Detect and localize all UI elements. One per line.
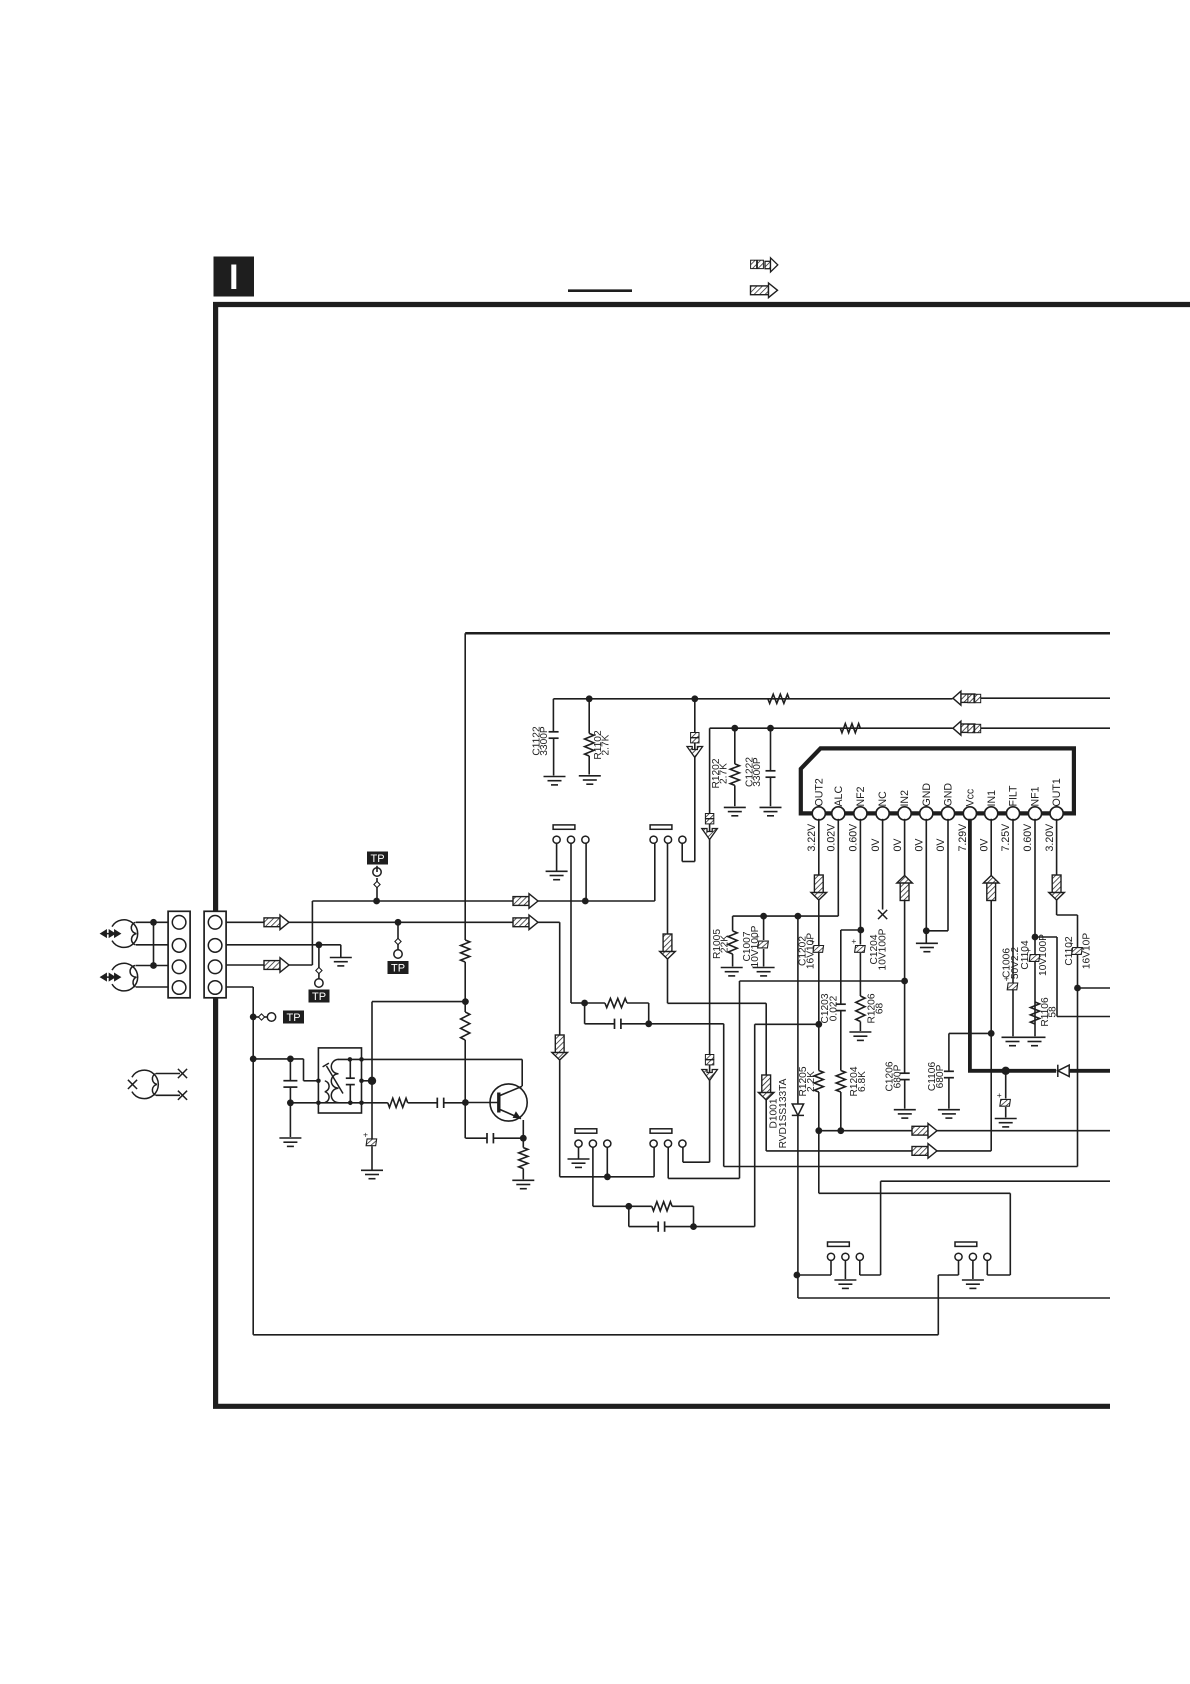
ground H5 [834,1280,856,1288]
net label squares on x709 lower [705,1055,713,1065]
wire y988 to right [1078,987,1111,989]
resistor R1102 [588,699,590,734]
wire RC2 right down [693,1206,695,1226]
wire x739 up to y981 [739,981,741,1178]
down arrow x766 (to D1001 label) [758,1075,774,1100]
wire x372 up and right to x465 [371,1002,373,1081]
capacitor C1206 [900,1073,910,1079]
svg-text:C1102: C1102 [1064,936,1075,966]
svg-text:3.20V: 3.20V [1044,823,1056,852]
wire H5 pin3 right-up [859,1261,861,1276]
capacitor C1203 [836,1004,846,1010]
resistor base R [388,1098,408,1107]
svg-text:2.2K: 2.2K [806,1071,817,1092]
wire J2 sleeve [136,986,168,988]
resistor R on net Y1 [768,694,789,703]
wire x1077 down [1077,915,1079,1167]
capacitor base C [437,1098,443,1108]
IC pin IN1 [985,807,998,820]
wire R1205 to y1130 [818,1092,820,1193]
resistor R1005 [732,916,734,931]
wire emitter [522,1120,524,1148]
node junction R1102 top [586,695,593,702]
capacitor RC1 [585,1023,615,1025]
node TP3 junction [316,941,323,948]
test point TP3 [318,945,320,979]
border frame [216,305,1190,1407]
wire RC1 right down [648,1003,650,1024]
node junction net Y1 to header [691,695,698,702]
wire GND pin 1 down [925,819,927,944]
ground osc tap [361,1170,383,1178]
ground emitter [512,1180,534,1188]
wire osc ground stub [289,1103,291,1137]
resistor Ra on x465 [461,940,470,962]
ground osc [279,1138,301,1146]
wire y1166 across [724,1166,1078,1168]
wire osc elbow to T1 pin [303,1059,305,1081]
svg-text:+: + [363,1129,368,1139]
wire y1181 to right [881,1180,1110,1182]
ground R1202 [724,807,746,815]
svg-text:0.02V: 0.02V [826,823,838,852]
node D1001 net top [795,913,802,920]
resistor R on net Y2 [840,724,860,733]
test point TP1 [376,878,378,901]
IC pin NC [876,807,889,820]
down arrowhead on x694 [687,747,703,758]
svg-text:OUT2: OUT2 [813,778,825,806]
transformer pins [316,1079,321,1084]
capacitor C1122 [552,699,554,732]
svg-text:TP: TP [312,991,326,1003]
wire net B up to header circle1 [654,844,656,902]
node junction x465-y1001 [462,998,469,1005]
resistor R1206 [856,996,865,1022]
node jack link top [150,919,157,926]
wire R to cap [408,1102,437,1104]
node NF1 y937 [1032,934,1039,941]
net label squares Y2 [968,724,981,732]
svg-text:10V100P: 10V100P [878,928,889,970]
wire GND pin 2 down [947,819,949,931]
wire NF2 stub to C1203 [841,929,861,931]
left arrow into net Y1 [953,691,975,705]
transformer T1 tuning arrow [323,1063,343,1093]
wire x372 down to bypass cap [371,1081,373,1139]
node T1 tap [368,1077,376,1085]
wire J3 top [156,1073,180,1075]
wire H4 pin2 net [667,1147,669,1178]
wire to ground osc tap [371,1146,373,1169]
x mark J3 left [128,1080,137,1089]
diode D Vcc [1058,1065,1069,1077]
IC pin OUT1 [1050,807,1063,820]
capacitor C1006 [1004,973,1018,989]
net label squares Y1 [968,694,981,702]
wire base node to transistor [465,1102,498,1104]
wire NF2 pin down [859,819,861,945]
svg-text:IN2: IN2 [899,790,911,807]
wire pin2 net y944 [226,944,341,946]
wire J1 tip [136,921,168,923]
svg-text:0V: 0V [978,838,990,852]
ground R1206 [849,1032,871,1040]
svg-text:6.8K: 6.8K [857,1071,868,1092]
node junction C1222 top [767,725,774,732]
node junction R1202 top [731,725,738,732]
capacitor C1202 [810,936,824,952]
wire H6 pin2 ground [972,1261,974,1280]
wire x1010 down to row3 header [1009,1193,1011,1275]
arrow y1151 [912,1144,937,1159]
down arrow on H2 pin2 wire [660,934,676,959]
down arrow on net A [552,1035,568,1060]
header H6 (row3 right) [955,1242,977,1246]
ground R1005 [721,968,743,976]
up arrow IN2 [897,876,913,901]
resistor R1202 [734,728,736,764]
wire net Y2 corner down x709 [709,728,711,1162]
IC pin GND [941,807,954,820]
wire IN1 bottom corner [990,1150,992,1152]
ground H1 pin1 [546,871,568,879]
node C1007 top [760,913,767,920]
wire H5 pin2 ground [844,1261,846,1280]
wire pin2 ground stub [340,945,342,958]
wire y1024 to OUT2 node [755,1023,819,1025]
wire ALC pin down [837,819,839,916]
wire T1 secondary out [362,1102,388,1104]
node RC2 left top [625,1203,632,1210]
svg-text:7.25V: 7.25V [1000,823,1012,852]
svg-text:TP: TP [286,1012,300,1024]
svg-text:3300P: 3300P [752,757,763,787]
IC pin FILT [1006,807,1019,820]
node RC1 right bottom [645,1020,652,1027]
svg-text:3300P: 3300P [539,726,550,756]
wire FILT pin down [1012,819,1014,1037]
wire x766 down [765,1003,767,1151]
wire IN1 pin down [990,819,992,1151]
wire OUT1 corner right [1057,914,1078,916]
svg-text:0V: 0V [914,838,926,852]
node TP2 junction [395,919,402,926]
ground pin2 net [330,958,352,966]
IC pin NF1 [1028,807,1041,820]
svg-text:NC: NC [877,791,889,807]
node GND junction [923,927,930,934]
wire x465 to base node [464,1040,466,1103]
svg-text:0V: 0V [935,838,947,852]
wire y1016 to right [1057,1016,1110,1018]
jack J1 (top phono) [112,920,138,948]
node IN2 y981 [901,978,908,985]
svg-text:7.29V: 7.29V [957,823,969,852]
node OUT2 y1024 [815,1021,822,1028]
svg-text:0V: 0V [892,838,904,852]
svg-text:ALC: ALC [833,786,845,807]
arrow y1130 [912,1123,937,1138]
arrow on net A left [264,915,289,930]
test point TP2 [397,922,399,950]
resistor RC2 [652,1202,672,1211]
svg-text:680P: 680P [935,1064,946,1088]
wire Vcc diode to right [1069,1069,1110,1073]
IC pin NF2 [854,807,867,820]
wire H2 pin2 down with arrow [667,843,669,1003]
ground Vcc cap [995,1119,1017,1127]
down arrowhead on x709 upper [702,829,718,840]
svg-text:68: 68 [875,1003,886,1015]
wire J3 bottom [156,1094,180,1096]
node osc cap bottom [287,1099,294,1106]
wire H1 pin3 down to net B [585,843,587,901]
ground IC GND pins [916,943,938,951]
wire OUT1 pin down [1056,819,1058,915]
capacitor Vcc electrolytic [1005,1071,1007,1099]
wire H3 pin1 ground stub [578,1147,580,1158]
ground C1206 [894,1110,916,1118]
node transistor base junction [462,1099,469,1106]
IC pin OUT2 [812,807,825,820]
wire net Y2 to right [981,727,1111,729]
ground C1122 [544,777,566,785]
wire net Y1 horizontal y699 [553,698,952,700]
x mark J3 top [178,1069,187,1078]
node C1102 bottom [1074,985,1081,992]
ground R1106 [1024,1037,1046,1045]
node junction circle3 row2-left header [604,1173,611,1180]
node IN1 y1033 [988,1030,995,1037]
wire net A down x559 [559,922,561,1177]
connector CN-A (outside frame) [168,911,190,998]
wire osc bottom to T1 pin [290,1102,318,1104]
wire H5 pin1 down-left [830,1261,832,1276]
wire RC2 left down [628,1206,630,1226]
svg-text:Vcc: Vcc [965,788,977,806]
wire OUT2 pin down [818,819,820,1071]
wire IN2 pin down [904,819,906,1074]
node R1204 bottom [837,1127,844,1134]
arrow on net A mid [513,915,538,930]
wire jack link vertical [153,922,155,965]
wire RC1 to x723 [649,1023,724,1025]
ground C1106 [938,1110,960,1118]
wire C1206 ground [904,1080,906,1109]
IC pin ALC [832,807,845,820]
capacitor C1007 [763,916,765,940]
header H3 (row2 left) [575,1129,597,1133]
wire RC1 left down [584,1003,586,1024]
node D1001 net y1275 [794,1272,801,1279]
wire y1151 across [766,1150,991,1152]
wire y1298 across [798,1297,1110,1299]
wire bottom run y1335 [253,1334,938,1336]
node RC2 right bottom [690,1223,697,1230]
header H4 (row2 right) [650,1129,672,1133]
svg-text:10V100P: 10V100P [1038,934,1049,976]
wire x723 down [723,1024,725,1167]
jack J2 (bottom phono) [112,963,138,991]
svg-text:C1104: C1104 [1020,940,1031,970]
node junction circle3 upper-left header [582,898,589,905]
wire D1001 net down [797,916,799,1104]
wire H3 pin2 down [592,1147,594,1206]
svg-text:2.7K: 2.7K [719,763,730,784]
wire osc node y1059 [253,1058,303,1060]
node emitter [520,1135,527,1142]
resistor Rb on x465 [461,1012,470,1040]
wire C1203 to R1204 [840,1011,842,1071]
wire x465 mid [464,962,466,1012]
svg-text:3.22V: 3.22V [806,823,818,852]
wire H1 pin2 down to RC node [570,843,572,1003]
ground R1102 [579,776,601,784]
svg-text:GND: GND [921,783,933,807]
svg-text:NF1: NF1 [1030,786,1042,806]
arrow on net B [513,894,538,909]
wire C1204 to R1206 [859,953,861,996]
down arrow OUT1 [1049,875,1065,900]
capacitor C1222 [770,728,772,771]
svg-text:16V10P: 16V10P [806,933,817,969]
capacitor emitter C [465,1137,486,1139]
svg-text:680P: 680P [893,1064,904,1088]
svg-text:22K: 22K [720,935,731,953]
resistor RC1 [605,998,627,1007]
title underline [568,289,632,292]
capacitor osc C [289,1059,291,1081]
wire cap to base node [444,1102,466,1104]
x mark NC [878,910,887,919]
wire y1193 across [819,1192,1011,1194]
wire x880 up to y1181 [880,1181,882,1275]
wire x754 up [754,1024,756,1226]
IC pin Vcc [963,807,976,820]
resistor R1204 [836,1071,845,1093]
up arrow IN1 [983,876,999,901]
wire R1204 bottom [840,1092,842,1131]
wire H3 pin3 to net A [606,1147,608,1177]
wire up x938 to row3 header [937,1275,939,1335]
wire net A y922 [226,921,560,923]
legend symbol small squares with arrow [751,260,764,268]
svg-text:0.60V: 0.60V [1022,823,1034,852]
node Vcc cap junction [1002,1067,1010,1075]
wire D1001 to bottom [797,1115,799,1298]
svg-text:IN1: IN1 [986,790,998,807]
wire net Y1 to right [981,697,1111,699]
wire H6 pin3 right-up (to x1010) [986,1260,988,1262]
transformer T1 bottom wire [318,1102,361,1104]
svg-text:+: + [997,1090,1002,1100]
wire pin4 down x253 [252,987,254,1335]
svg-text:10V100P: 10V100P [750,925,761,967]
wire J2 tip [136,965,168,967]
ground H6 [962,1280,984,1288]
wire net Y2 horizontal y728 [710,727,953,729]
capacitor electrolytic on osc tap [363,1129,377,1145]
svg-text:16V10P: 16V10P [1082,933,1093,969]
IC U1 body [801,748,1074,813]
capacitor RC2 [629,1226,658,1228]
net label squares on x709 upper [705,814,713,824]
svg-text:FILT: FILT [1008,785,1020,807]
ground FILT [1002,1037,1024,1045]
resistor R1106 [1030,1002,1039,1024]
svg-text:0.60V: 0.60V [848,823,860,852]
transformer T1 top wire [338,1058,522,1060]
wire x709 bottom to row2 header circle3 [683,1161,710,1163]
connector CN-B (on frame) [204,911,226,998]
wire H2 pin3 loop [681,843,683,861]
transformer T1 primary coil [325,1081,329,1103]
jack J3 unused [132,1070,158,1098]
wire x694 from net Y1 down [694,699,696,862]
down arrow OUT2 [811,875,827,900]
wire NF1 branch right [1035,936,1057,938]
wire H1 pin1 to ground [556,843,558,870]
header H2 (row1 right) [650,825,672,829]
section marker box I [214,257,255,297]
wire NC stub [882,819,884,910]
node R1205 bottom [815,1127,822,1134]
capacitor C1204 [851,936,865,952]
wire net B vertical left x312 [311,901,313,965]
wire net B from arrow pin3 [226,964,312,966]
wire C1106 ground [948,1078,950,1109]
capacitor C1106 [944,1071,954,1077]
wire collector [521,1059,523,1086]
svg-text:GND: GND [943,783,955,807]
test point TP4 [253,1016,267,1018]
wire y1130 across [819,1130,1110,1132]
node osc cap top [287,1056,294,1063]
wire J1 sleeve [136,944,168,946]
wire x465 base to emitter-cap [464,1103,466,1139]
capacitor C1102 [1069,938,1083,954]
wire emitter R to ground [522,1169,524,1180]
svg-text:0V: 0V [870,838,882,852]
wire vertical x465 from bus [464,633,466,940]
svg-text:NF2: NF2 [855,786,867,806]
legend hatched arrow [751,283,778,298]
svg-text:2.7K: 2.7K [601,734,612,755]
ground C1222 [760,807,782,815]
transistor Q1 [490,1084,527,1121]
wire net B y901 horizontal [312,900,654,902]
transformer T1 internal capacitor [349,1059,351,1078]
wire RC2 to x754 [694,1226,755,1228]
capacitor C1104 [1026,945,1040,961]
IC pin IN2 [898,807,911,820]
net label squares above arrow x694 [691,733,699,743]
svg-text:0.022: 0.022 [829,995,840,1021]
svg-text:TP: TP [370,853,384,865]
node NF2 y930 [857,927,864,934]
svg-text:TP: TP [391,963,405,975]
left arrow into net Y2 [953,721,975,735]
node TP1 junction [373,898,380,905]
transformer T1 secondary coil [331,1059,338,1102]
node TP4 junction [250,1014,257,1021]
wire H2 pin2 net right [668,1002,767,1004]
wire pin4 net y987 [226,986,253,988]
svg-text:RVD1SS133TA: RVD1SS133TA [778,1078,789,1148]
wire y1033 to C1106 [949,1032,991,1034]
wire NF1 pin down [1034,819,1036,1037]
